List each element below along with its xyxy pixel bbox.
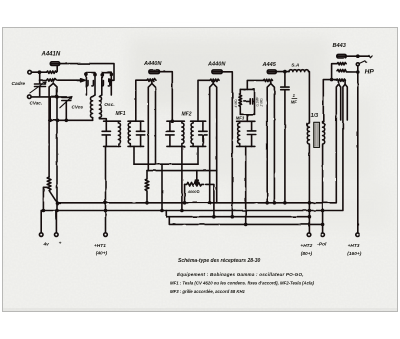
terminal: antenna bottom: [28, 95, 32, 99]
wire: +HT3 line from HP contact: [357, 66, 359, 233]
capacitor CVac variable: [35, 72, 46, 96]
wire: tuning return bus: [49, 119, 93, 121]
svg-text:MF1: MF1: [116, 111, 126, 117]
svg-text:+HT3: +HT3: [348, 243, 360, 249]
svg-text:Équipement : Bobinages Gamma :: Équipement : Bobinages Gamma : oscillate…: [177, 270, 304, 277]
terminal +HT2: [307, 233, 311, 237]
wire: MF3 bottom to B4: [245, 146, 247, 224]
node: switch arrow right: [109, 79, 113, 82]
MF3 tuned grid circuit: [237, 121, 255, 146]
switch PO-GO right staple: [102, 72, 112, 95]
svg-text:4 MΩ: 4 MΩ: [234, 99, 238, 108]
svg-text:+HT2: +HT2: [300, 243, 312, 249]
resistor winding z1 of B443: [337, 63, 346, 65]
svg-text:A440N: A440N: [207, 61, 226, 67]
wire: B443 apex ticks: [339, 81, 346, 85]
tube V3 A440N top-cap box: [212, 70, 222, 74]
svg-text:Cadre: Cadre: [12, 81, 26, 87]
wire: 4v+ drop: [55, 211, 57, 233]
tube V2 A440N top-cap box: [149, 70, 160, 74]
tube V4 A445 top-cap box: [267, 70, 276, 74]
svg-text:A445: A445: [262, 62, 277, 68]
wire: line1 grid return: [134, 163, 198, 165]
capacitor grid condenser: [244, 89, 254, 114]
tube V3 A440N envelope arch: [210, 84, 217, 203]
transformer 1/3 primary coil: [307, 121, 309, 146]
inductor oscillator winding A: [91, 95, 96, 118]
svg-text:MF3: MF3: [236, 116, 245, 121]
wire: secondary bottom to -Pol terminal: [322, 146, 324, 233]
tube V2 A440N envelope arch: [148, 84, 155, 171]
terminal: antenna top: [28, 70, 32, 74]
svg-text:4v: 4v: [43, 242, 50, 248]
svg-text:(40+): (40+): [96, 251, 108, 257]
wire: secondary top to B443 grid: [323, 80, 336, 122]
wire: line2 filament link: [147, 170, 217, 172]
inductor MF3 coil: [238, 121, 240, 146]
resistor V3 grid squiggle: [210, 79, 219, 81]
resistor V4 grid squiggle: [263, 79, 272, 81]
resistor R-grid1 squiggle on top lead: [47, 66, 58, 74]
wire: antenna bottom lead: [31, 96, 66, 98]
svg-text:(80+): (80+): [301, 251, 313, 257]
wire: MF1 primary bottom to +HT1 terminal: [105, 146, 107, 232]
svg-text:CVos: CVos: [72, 105, 84, 110]
svg-text:1/3: 1/3: [311, 113, 319, 119]
wire: V4 anode lead: [276, 71, 289, 73]
wire: MF2 primary bottom to B2: [181, 146, 183, 210]
rheostat Rh1: [47, 177, 57, 203]
svg-text:CVac.: CVac.: [30, 101, 43, 106]
node: switch arrow left: [77, 79, 81, 81]
svg-text:4000Ω: 4000Ω: [187, 189, 200, 194]
wire: V1 anode lead to oscillator switch: [60, 64, 114, 81]
node: HP plug contact: [356, 63, 359, 66]
tube V1 A441N top-cap box: [50, 62, 59, 66]
wire: MF2 secondary top to V3 grid: [198, 80, 210, 121]
tube V5 B443 top-cap box: [337, 54, 346, 58]
wire: main filament bus B1 + output tube B443 left leg/arch: [57, 84, 341, 203]
svg-text:Osc.: Osc.: [104, 102, 114, 108]
inductor S.A. choke: [289, 70, 309, 122]
wire: bus B4: [169, 217, 322, 225]
terminal 4v+: [55, 233, 59, 237]
capacitor MF3: [247, 121, 255, 146]
svg-text:MF3 : grille accordée, accord: MF3 : grille accordée, accord 58 KHz: [170, 289, 246, 294]
svg-text:MF: MF: [291, 99, 297, 104]
wire: V3 anode to MF3: [222, 72, 232, 217]
svg-text:-Pol: -Pol: [317, 242, 327, 248]
wire: bus B2 + output tube B443 right leg/arch: [41, 84, 347, 210]
wire: bus B3: [166, 211, 309, 217]
svg-text:MF2: MF2: [182, 112, 192, 118]
resistor winding z3 of B443: [336, 79, 345, 81]
capacitor 1MF: [281, 72, 289, 203]
terminal -Pol: [321, 233, 325, 237]
terminal +HT1: [104, 233, 108, 237]
switch PO-GO left staple: [86, 73, 95, 95]
terminal 4v-: [39, 233, 43, 237]
wire: MF1 secondary top to V2 grid: [136, 80, 147, 121]
wire: line1 drop to B2: [161, 164, 163, 210]
inductor MF2 secondary coil: [191, 121, 193, 146]
svg-text:HP: HP: [365, 69, 375, 76]
wire: z1 left link: [332, 64, 337, 80]
transformer 1/3 core: [314, 122, 320, 147]
wire: 4v- terminal riser: [40, 211, 42, 233]
MF2 secondary tuned circuit: [191, 121, 206, 146]
svg-text:MF1 : Tesla (CV 4620 ou les co: MF1 : Tesla (CV 4620 ou les condens. fix…: [170, 281, 315, 286]
transformer 1/3 secondary coil: [323, 121, 325, 146]
wire: antenna top lead: [31, 71, 46, 73]
MF2 primary tuned circuit: [167, 121, 185, 146]
resistor winding z2 of B443: [337, 70, 358, 73]
svg-text:+: +: [59, 242, 62, 247]
wire: winding A to tuning bus: [92, 118, 94, 121]
svg-text:A441N: A441N: [41, 52, 61, 58]
svg-text:A440N: A440N: [143, 61, 162, 67]
inductor oscillator winding B: [99, 95, 101, 118]
inductor MF2 primary coil: [182, 121, 184, 146]
resistor R-grid2 squiggle on grid line: [47, 79, 78, 81]
capacitor CVos variable: [62, 97, 71, 120]
terminal +HT3: [356, 233, 360, 237]
tube V4 A445 envelope arch: [267, 84, 274, 203]
wire: winding B to MF1 primary: [99, 118, 106, 122]
wire: V5 anode to HP plug: [346, 55, 369, 57]
wire: RC bottom to MF3: [246, 114, 248, 121]
wire: MF2 secondary bottom to line1: [197, 146, 199, 164]
svg-text:2 MΩ: 2 MΩ: [260, 98, 264, 108]
wire: RC to V4 grid: [247, 80, 263, 89]
svg-text:S.A: S.A: [291, 63, 300, 69]
wire: V2 anode to MF2 primary: [160, 72, 173, 122]
detector grid RC box: [240, 89, 254, 114]
svg-text:+HT1: +HT1: [94, 243, 106, 249]
inductor MF1 secondary coil: [128, 121, 130, 146]
resistor R 4000 ohm: [196, 171, 198, 181]
rheostat Rh2: [145, 171, 149, 203]
svg-text:(160+): (160+): [347, 251, 361, 257]
inductor MF1 primary coil: [118, 121, 120, 146]
svg-text:Schéma-type des récepteurs 28-: Schéma-type des récepteurs 28-30: [178, 258, 260, 264]
wire: drop to tuning bus: [49, 97, 51, 120]
wire: Rh1 slider to B2: [43, 187, 46, 210]
svg-text:B443: B443: [333, 43, 347, 49]
resistor grid leak vertical: [239, 89, 242, 114]
wire: V1 grid line: [40, 79, 47, 81]
resistor V2 grid squiggle: [147, 79, 156, 81]
MF1 secondary tuned circuit: [128, 121, 144, 146]
node: junction antenna/CVac: [38, 71, 40, 73]
MF1 primary tuned circuit: [104, 121, 121, 146]
tube V1 A441N envelope arch: [49, 83, 57, 210]
wire: MF1 secondary bottom to line1: [133, 146, 135, 164]
wire: primary bottom to +HT2: [308, 146, 310, 233]
